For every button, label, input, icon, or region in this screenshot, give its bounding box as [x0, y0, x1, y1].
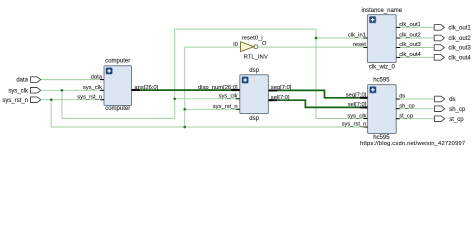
svg-text:clk_out1: clk_out1: [448, 26, 471, 32]
input port sys_clk: [30, 88, 40, 94]
wire ds: [396, 98, 435, 100]
wire st_cp: [396, 118, 435, 120]
svg-text:computer: computer: [105, 58, 130, 64]
svg-text:clk_out3: clk_out3: [399, 42, 421, 48]
wire sys_clk net: [41, 29, 368, 118]
svg-text:dsp: dsp: [249, 116, 259, 122]
wire data net: [41, 79, 104, 81]
svg-text:clk_out2: clk_out2: [448, 36, 471, 42]
wire clk_out3: [396, 47, 434, 49]
wire clk_out2: [396, 37, 434, 39]
svg-text:clk_out2: clk_out2: [399, 33, 421, 39]
svg-text:st_cp: st_cp: [449, 117, 464, 123]
svg-text:instance_name: instance_name: [361, 8, 402, 14]
svg-text:sys_clk: sys_clk: [347, 113, 366, 119]
svg-text:RTL_INV: RTL_INV: [244, 55, 268, 61]
output port clk_out2: [434, 35, 444, 41]
junction dsp sys_rst_n branch: [183, 108, 186, 111]
svg-text:data: data: [16, 78, 28, 84]
wire sys_rst_n net: [41, 47, 368, 127]
svg-text:sh_cp: sh_cp: [399, 103, 414, 109]
svg-text:clk_out4: clk_out4: [448, 56, 471, 62]
svg-text:https://blog.csdn.net/weixin_4: https://blog.csdn.net/weixin_42720997: [360, 141, 465, 147]
svg-text:I0: I0: [233, 42, 238, 48]
svg-text:ds: ds: [449, 97, 455, 103]
bus seg[7:0] dsp->hc595: [268, 90, 367, 97]
svg-text:disp_num[26:0]: disp_num[26:0]: [198, 85, 238, 91]
bus ans[26:0] computer->dsp: [131, 89, 239, 91]
svg-text:seg[7:0]: seg[7:0]: [271, 85, 292, 91]
svg-text:clk_out3: clk_out3: [448, 46, 471, 52]
svg-text:dsp: dsp: [249, 68, 259, 74]
output port clk_out4: [434, 55, 444, 61]
svg-text:sh_cp: sh_cp: [449, 107, 466, 113]
junction dsp sys_clk branch: [173, 97, 176, 100]
svg-text:reset0_i: reset0_i: [242, 36, 263, 42]
svg-text:sys_rst_n: sys_rst_n: [342, 121, 367, 127]
svg-text:sys_rst_n: sys_rst_n: [213, 104, 238, 110]
svg-text:clk_out4: clk_out4: [399, 52, 421, 58]
svg-text:ds: ds: [399, 94, 405, 100]
wire reset net (inverter out to clk_wiz reset): [258, 46, 367, 48]
junction sys_rst_n at port line: [50, 98, 53, 101]
input port data: [30, 77, 40, 83]
svg-text:sel[7:0]: sel[7:0]: [271, 95, 290, 101]
inverter reset0_i (RTL_INV): [241, 42, 258, 52]
svg-text:sys_clk: sys_clk: [219, 94, 238, 100]
bus sel[7:0] dsp->hc595: [268, 100, 367, 107]
output port st_cp: [435, 116, 445, 122]
junction clk_in1 branch: [315, 37, 318, 40]
junction sys_clk at port line: [61, 89, 64, 92]
svg-text:sel[7:0]: sel[7:0]: [348, 102, 367, 108]
svg-text:clk_in1: clk_in1: [348, 33, 366, 39]
output port clk_out1: [434, 25, 444, 31]
output port ds: [435, 96, 445, 102]
svg-text:seg[7:0]: seg[7:0]: [346, 93, 367, 99]
svg-text:O: O: [262, 41, 267, 47]
output port sh_cp: [435, 106, 445, 112]
wire clk_out4: [396, 56, 434, 58]
module clk_wiz_0 (instance_name): [363, 15, 400, 63]
svg-text:sys_rst_n: sys_rst_n: [2, 98, 28, 104]
wire sh_cp: [396, 108, 435, 110]
svg-text:sys_clk: sys_clk: [8, 88, 29, 94]
svg-text:hc595: hc595: [373, 78, 390, 84]
module dsp: [231, 75, 273, 114]
svg-text:data: data: [91, 74, 103, 80]
module computer: [100, 66, 135, 106]
input port sys_rst_n: [30, 97, 40, 103]
svg-text:sys_rst_n: sys_rst_n: [77, 94, 102, 100]
svg-text:clk_wiz_0: clk_wiz_0: [369, 64, 396, 70]
svg-text:st_cp: st_cp: [399, 113, 413, 119]
svg-text:clk_out1: clk_out1: [399, 22, 421, 28]
output port clk_out3: [434, 45, 444, 51]
svg-text:sys_clk: sys_clk: [83, 85, 102, 91]
svg-text:ans[26:0]: ans[26:0]: [134, 85, 158, 91]
svg-text:computer: computer: [105, 106, 130, 112]
wire clk_out1: [396, 26, 434, 28]
svg-text:reset: reset: [353, 42, 366, 48]
module hc595: [364, 85, 400, 134]
junction sys_rst_n bottom T: [183, 126, 186, 129]
